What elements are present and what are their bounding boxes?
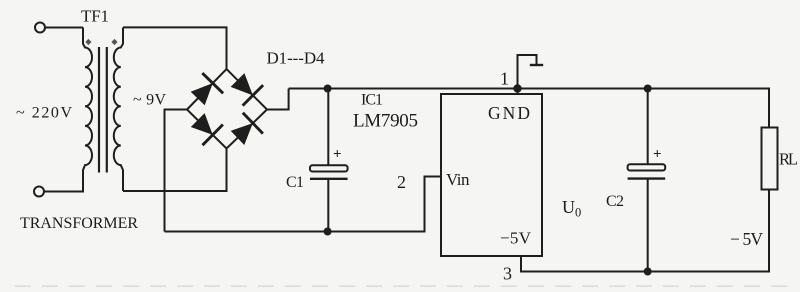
diode D4 (232, 113, 263, 144)
svg-text:GND: GND (488, 103, 530, 123)
svg-text:−5V: −5V (500, 229, 532, 248)
resistor RL (762, 128, 778, 190)
svg-text:1: 1 (500, 69, 509, 89)
op-amp/regulator U1 LM7905 box (441, 94, 542, 256)
diode D1 (192, 73, 224, 104)
svg-text:TRANSFORMER: TRANSFORMER (20, 215, 138, 232)
wire primary top (45, 27, 83, 29)
junction node (C1 top) (324, 85, 332, 93)
capacitor C2 (628, 89, 666, 272)
junction node (C1 bottom) (324, 228, 332, 236)
pin 1 wire (GND pin) (517, 89, 519, 95)
ground symbol (518, 55, 544, 89)
svg-text:C1: C1 (286, 174, 304, 191)
svg-text:C2: C2 (606, 193, 624, 210)
svg-text:+: + (333, 147, 342, 163)
svg-text:IC1: IC1 (361, 92, 383, 109)
diode D2 (232, 74, 264, 106)
scanner noise (bottom edge) (15, 285, 795, 287)
wire bridge negative output (left corner, down) (165, 110, 188, 232)
wire secondary top to bridge top (123, 27, 227, 69)
transformer TF1 core (98, 47, 100, 173)
wire bridge positive output (right corner, up) (267, 89, 289, 110)
svg-text:U0: U0 (562, 197, 581, 220)
bridge diamond wires (187, 69, 267, 149)
diode D3 (192, 114, 223, 145)
transformer TF1 primary winding (83, 28, 92, 192)
svg-text:− 5V: − 5V (730, 229, 763, 249)
svg-text:RL: RL (779, 150, 798, 169)
junction node (C2 top) (644, 85, 652, 93)
wire negative rail to Vin pin 2 (165, 177, 442, 232)
junction node (C2 bottom) (644, 268, 652, 276)
svg-text:+: + (653, 147, 662, 163)
svg-text:3: 3 (503, 264, 512, 284)
pin 3 wire (output) (521, 256, 648, 272)
svg-text:TF1: TF1 (81, 7, 109, 26)
polarity dot (primary) (85, 39, 91, 45)
svg-text:~ 220V: ~ 220V (16, 105, 72, 122)
wire output rail (bottom right) (648, 190, 769, 272)
terminal (primary top) (35, 23, 45, 33)
transformer TF1 secondary winding (114, 28, 123, 192)
svg-text:LM7905: LM7905 (353, 111, 418, 132)
polarity dot (secondary) (111, 39, 117, 45)
svg-text:2: 2 (397, 172, 406, 192)
wire ground rail (top) (289, 89, 769, 128)
terminal (primary bottom) (34, 187, 44, 197)
wire primary bottom (44, 191, 84, 193)
svg-text:~ 9V: ~ 9V (133, 92, 166, 109)
junction node (pin 1 / ground rail) (513, 84, 521, 92)
svg-text:Vin: Vin (446, 170, 470, 189)
svg-text:D1---D4: D1---D4 (267, 49, 326, 68)
wire secondary bottom to bridge bottom (123, 149, 227, 192)
capacitor C1 (310, 89, 348, 232)
